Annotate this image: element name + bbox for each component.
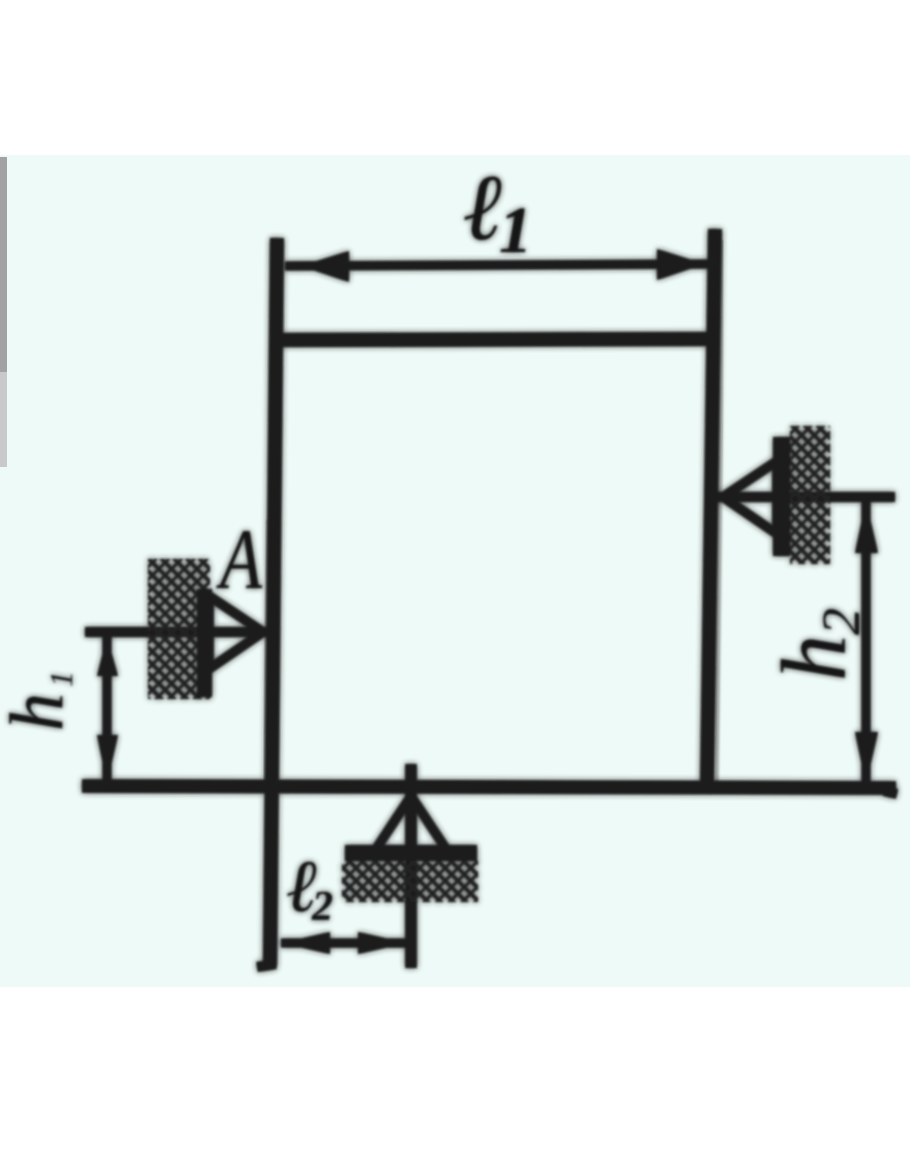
ghost shadow under top edge xyxy=(272,350,717,355)
left scan-edge gray strip (lower faded part) xyxy=(0,372,7,467)
ghost shadow under ground line xyxy=(95,795,900,801)
scanned figure background xyxy=(0,155,910,987)
ghost shadow right of right frame edge xyxy=(716,240,723,788)
ghost shadow left of left frame edge xyxy=(264,520,268,790)
left scan-edge gray strip xyxy=(0,157,7,372)
core pass of the drawing xyxy=(0,156,897,968)
blurred halo pass of the drawing xyxy=(0,156,897,968)
